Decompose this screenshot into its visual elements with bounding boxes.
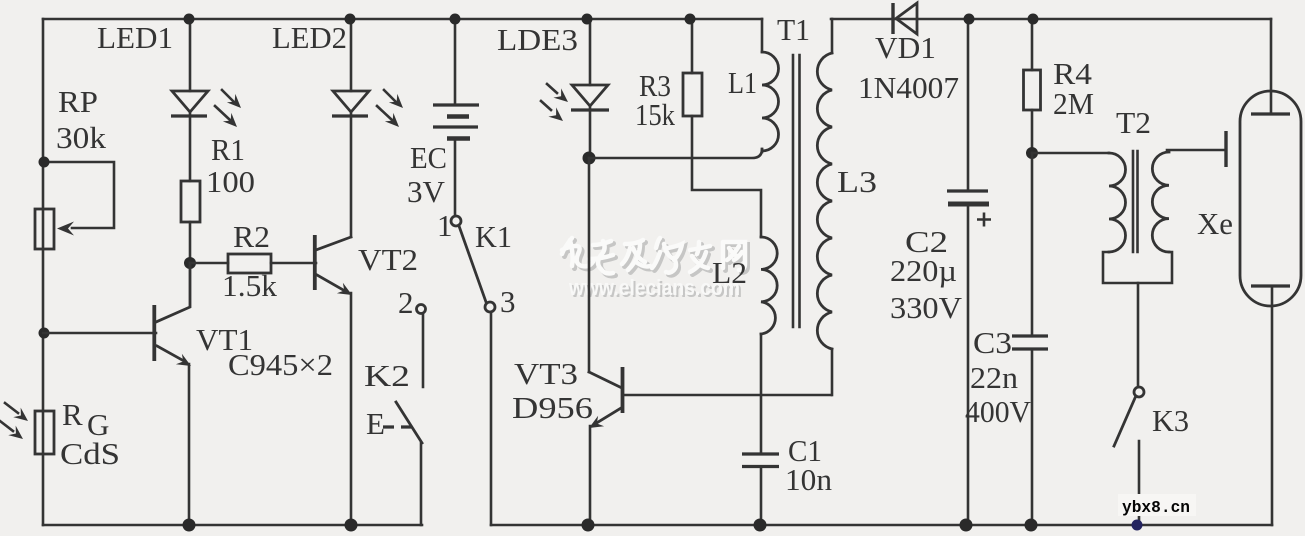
svg-text:C3: C3 (973, 325, 1012, 360)
transformer T1 core (793, 55, 800, 327)
node R4 bottom (1026, 147, 1038, 159)
svg-text:R2: R2 (233, 219, 270, 254)
node LED1 top (184, 14, 195, 25)
wire left bus (42, 19, 45, 525)
svg-text:T1: T1 (777, 12, 810, 47)
svg-text:K2: K2 (364, 358, 410, 393)
node battery top (450, 14, 461, 25)
battery EC 3V (433, 19, 479, 215)
node R3 top (685, 14, 696, 25)
svg-text:R: R (62, 397, 83, 432)
node B (VT1 base on left bus) (39, 328, 50, 339)
svg-text:LED1: LED1 (97, 20, 173, 55)
svg-text:10n: 10n (785, 462, 833, 497)
transformer T1 winding L3 (817, 19, 832, 395)
wire L2 bottom to C1 (760, 334, 763, 452)
node LDE3 top (582, 14, 593, 25)
potentiometer RP (35, 162, 114, 249)
resistor R4 (1024, 19, 1041, 153)
wire R1 to node (189, 222, 192, 263)
svg-text:C945×2: C945×2 (228, 347, 333, 382)
node K3 bottom (blue) (1132, 520, 1143, 531)
svg-text:LDE3: LDE3 (497, 22, 578, 57)
node VT3 emitter bottom (582, 519, 595, 532)
resistor R2 (190, 254, 316, 273)
photoresistor RG CdS (0, 403, 54, 454)
wire top-left bus (43, 18, 762, 21)
svg-text:400V: 400V (965, 394, 1032, 429)
wire bottom-right bus (491, 524, 1272, 527)
svg-text:22n: 22n (970, 360, 1019, 395)
capacitor C3 (1012, 153, 1048, 525)
node R1-R2-VT1 (184, 257, 196, 269)
transistor VT1 (43, 263, 194, 525)
svg-text:ybx8.cn: ybx8.cn (1122, 499, 1190, 518)
svg-text:2: 2 (398, 285, 414, 320)
wire bottom-left bus (43, 524, 422, 527)
wire top-right bus (831, 18, 1271, 21)
node A (RP tap on left bus) (39, 157, 50, 168)
svg-text:E: E (366, 406, 385, 441)
svg-text:VT3: VT3 (514, 356, 578, 391)
svg-text:Xe: Xe (1197, 206, 1233, 241)
svg-text:100: 100 (206, 164, 255, 199)
svg-text:T2: T2 (1116, 105, 1151, 140)
svg-text:L2: L2 (712, 255, 747, 290)
svg-text:RP: RP (58, 84, 98, 119)
svg-text:VD1: VD1 (875, 30, 936, 65)
resistor R1 (181, 181, 200, 222)
switch K3 (1114, 387, 1144, 524)
node C1 bottom (754, 519, 767, 532)
svg-text:CdS: CdS (60, 436, 120, 471)
wire T2 to K3 (1137, 283, 1140, 387)
LED LED2 (332, 19, 407, 237)
svg-text:3: 3 (500, 284, 516, 319)
svg-text:VT2: VT2 (358, 242, 418, 277)
node C2 bottom (960, 519, 973, 532)
switch K2 (383, 305, 426, 526)
watermark 电子发烧友网 (562, 238, 748, 276)
svg-text:D956: D956 (512, 390, 593, 425)
transistor VT3 (586, 367, 831, 525)
svg-text:LED2: LED2 (272, 20, 347, 55)
svg-text:1: 1 (437, 208, 453, 243)
svg-text:3V: 3V (407, 174, 446, 209)
xenon tube Xe (1240, 19, 1301, 525)
node LDE3 cathode junction (583, 152, 596, 165)
svg-text:K3: K3 (1152, 403, 1189, 438)
svg-text:2M: 2M (1053, 86, 1094, 121)
svg-text:L3: L3 (837, 164, 877, 199)
svg-text:L1: L1 (728, 65, 757, 100)
wire LDE3 junction to L1 bottom (589, 149, 762, 158)
svg-text:15k: 15k (635, 97, 675, 132)
wire LDE3 junction down to VT3 (588, 158, 591, 372)
node C3 bottom (1025, 519, 1038, 532)
LED LED1 (171, 19, 245, 181)
transformer T1 winding L1 (762, 19, 779, 152)
transformer T2 secondary (1152, 150, 1224, 252)
svg-text:220µ: 220µ (890, 253, 957, 288)
capacitor C1 (742, 454, 779, 525)
switch K1 (451, 216, 495, 525)
diode VD1 (893, 3, 917, 34)
node C2 top (964, 14, 975, 25)
resistor R3 (683, 19, 761, 237)
svg-text:1N4007: 1N4007 (858, 70, 959, 105)
capacitor C2 (947, 19, 991, 525)
logo ybx8.cn (1118, 494, 1196, 518)
svg-text:R1: R1 (211, 132, 245, 167)
watermark www.elecians.com (568, 275, 742, 302)
transistor VT2 (315, 235, 355, 525)
transformer T2 core (1133, 151, 1138, 252)
node LED2 top (345, 14, 356, 25)
node VT2 emitter bottom (345, 519, 358, 532)
node R4 top (1028, 14, 1039, 25)
svg-text:K1: K1 (475, 219, 512, 254)
node VT1 emitter bottom (183, 519, 196, 532)
transformer T2 yoke box (1103, 252, 1172, 283)
trigger electrode (1224, 131, 1227, 167)
svg-text:1.5k: 1.5k (222, 268, 278, 303)
transformer T1 winding L2 (761, 237, 777, 334)
svg-text:EC: EC (410, 140, 447, 175)
LED LDE3 (541, 19, 609, 158)
svg-text:30k: 30k (56, 120, 107, 155)
transformer T2 primary (1032, 153, 1126, 252)
svg-text:330V: 330V (890, 290, 963, 325)
